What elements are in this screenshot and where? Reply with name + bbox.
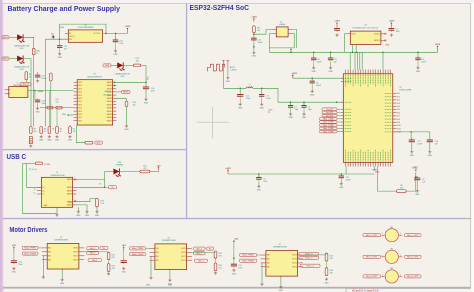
resistor R5b bbox=[396, 190, 406, 193]
wire bbox=[337, 124, 341, 126]
wire bbox=[233, 260, 235, 263]
node junction bbox=[253, 46, 255, 48]
LED D2 bbox=[17, 56, 25, 65]
svg-text:+VBAT: +VBAT bbox=[37, 90, 44, 93]
svg-text:OUT1: OUT1 bbox=[181, 260, 186, 262]
node junction bbox=[34, 90, 36, 92]
power flag small bbox=[147, 77, 149, 80]
svg-text:1: 1 bbox=[382, 274, 383, 276]
svg-text:1k: 1k bbox=[36, 53, 38, 55]
wire bbox=[42, 256, 44, 276]
wire bbox=[33, 55, 35, 108]
ground bbox=[328, 66, 333, 73]
ground bbox=[124, 125, 129, 132]
antenna ANT1 bbox=[207, 64, 225, 71]
svg-text:+3V3: +3V3 bbox=[435, 44, 441, 46]
U9 bottom pin bbox=[280, 276, 282, 278]
global label Motor_2_OUT2 bbox=[405, 255, 422, 258]
svg-text:OUTPUT: OUTPUT bbox=[93, 33, 101, 35]
M2 pin 1 bbox=[381, 256, 384, 258]
svg-text:Mot_3_OUT1: Mot_3_OUT1 bbox=[366, 275, 377, 278]
svg-text:LED: LED bbox=[121, 76, 125, 78]
ground bbox=[122, 267, 127, 274]
U1 left pins bbox=[74, 82, 83, 122]
ground bbox=[12, 267, 17, 274]
svg-text:10k: 10k bbox=[73, 131, 76, 133]
svg-text:OUT1: OUT1 bbox=[181, 252, 186, 254]
svg-text:+5V: +5V bbox=[157, 165, 161, 167]
U5 top pins bbox=[346, 70, 391, 74]
U1 right pins bbox=[107, 82, 117, 122]
Y1 pin 2 bbox=[272, 33, 276, 35]
power +3V3 rail right bbox=[435, 44, 441, 52]
wire bbox=[23, 59, 31, 127]
svg-text:GND: GND bbox=[144, 102, 149, 104]
J1 left pins bbox=[37, 187, 45, 196]
wire bbox=[61, 271, 63, 278]
node junction bbox=[352, 52, 354, 54]
svg-text:USB4110-GF-A: USB4110-GF-A bbox=[51, 174, 66, 177]
svg-text:XT25F32B-S IDT 2T25 1V8 T2: XT25F32B-S IDT 2T25 1V8 T25 bbox=[352, 28, 378, 30]
node junction bbox=[145, 82, 147, 84]
svg-text:GND: GND bbox=[302, 117, 307, 119]
wire bbox=[429, 132, 431, 139]
U8 right pins bbox=[181, 248, 192, 262]
ground bbox=[55, 135, 60, 142]
wire bbox=[23, 162, 27, 164]
power +5V USB bbox=[157, 165, 161, 171]
ground bbox=[390, 34, 393, 37]
global label Motor_2_PWM1 bbox=[320, 124, 338, 127]
ground bbox=[428, 150, 433, 157]
svg-text:Motor_PWM1: Motor_PWM1 bbox=[242, 254, 254, 257]
ground bbox=[95, 210, 100, 217]
wire bbox=[393, 131, 430, 133]
node junction bbox=[355, 52, 357, 54]
svg-text:F1 2A: F1 2A bbox=[44, 163, 50, 166]
U2 pin IN bbox=[65, 32, 68, 34]
wire bbox=[27, 162, 36, 164]
wire bbox=[337, 118, 341, 120]
global label M1 OUT1 bbox=[87, 247, 99, 250]
global label CHG_LED2 bbox=[2, 57, 9, 60]
J1 right pins bbox=[67, 179, 77, 206]
wire bbox=[261, 98, 263, 103]
capacitor C7 bbox=[389, 27, 395, 32]
capacitor C15 bbox=[237, 93, 244, 98]
Y1 pin 3 bbox=[288, 28, 292, 30]
svg-text:GND: GND bbox=[122, 272, 127, 274]
svg-text:GND: GND bbox=[288, 117, 293, 119]
wire bbox=[313, 52, 315, 57]
svg-text:GND: GND bbox=[415, 194, 420, 196]
svg-text:+3V3: +3V3 bbox=[389, 21, 395, 23]
wire bbox=[59, 49, 61, 52]
ground bbox=[302, 113, 307, 120]
wire feedback loop U2 bbox=[60, 24, 106, 39]
svg-text:Motor Drivers: Motor Drivers bbox=[10, 225, 48, 234]
svg-text:LED: LED bbox=[20, 69, 24, 71]
wire bbox=[257, 254, 261, 256]
resistor R10 bbox=[32, 48, 35, 55]
power +3V3 bottom left bbox=[225, 168, 231, 174]
global label Motor_1_PWM1 bbox=[320, 118, 338, 121]
left page margin strip bbox=[0, 0, 3, 292]
svg-text:10k: 10k bbox=[257, 30, 260, 32]
wire bbox=[77, 186, 105, 188]
node junction bbox=[114, 82, 116, 84]
wire bbox=[292, 29, 296, 48]
wire bbox=[261, 263, 263, 283]
wire bbox=[150, 171, 159, 173]
title block frame bbox=[346, 288, 471, 292]
svg-text:1k: 1k bbox=[29, 77, 31, 79]
section divider Motor Drivers top bbox=[3, 218, 471, 220]
svg-text:Battery Charge and Power Suppl: Battery Charge and Power Supply bbox=[8, 4, 121, 13]
svg-text:IO4: IO4 bbox=[397, 106, 400, 108]
svg-text:IO7: IO7 bbox=[397, 116, 400, 118]
svg-text:VBUS: VBUS bbox=[107, 98, 113, 100]
J1 no-connect crosses bbox=[74, 178, 76, 201]
ground bbox=[35, 107, 40, 114]
global label Motor_1_PWM2 bbox=[320, 121, 338, 124]
wire bbox=[270, 34, 295, 48]
U7 bottom pin bbox=[61, 269, 63, 271]
svg-text:GND: GND bbox=[124, 129, 129, 131]
M1 pin 2 bbox=[399, 234, 402, 236]
svg-text:Chg_OK: Chg_OK bbox=[327, 109, 333, 111]
ground bbox=[60, 278, 65, 285]
ground bbox=[42, 276, 45, 279]
svg-text:OUT1: OUT1 bbox=[292, 259, 297, 261]
capacitor C4 bbox=[288, 104, 293, 109]
svg-text:1: 1 bbox=[382, 233, 383, 235]
svg-text:Motor_PWM1: Motor_PWM1 bbox=[132, 247, 144, 250]
MCU U5 bbox=[343, 74, 393, 163]
wire bbox=[351, 44, 353, 52]
wire bbox=[108, 260, 110, 264]
svg-text:GND: GND bbox=[328, 71, 333, 73]
svg-text:1: 1 bbox=[382, 255, 383, 257]
svg-text:IN1: IN1 bbox=[48, 259, 51, 261]
svg-text:IN1: IN1 bbox=[156, 252, 159, 254]
svg-text:U7: U7 bbox=[60, 237, 62, 239]
svg-text:470: 470 bbox=[219, 256, 222, 258]
svg-text:DRV8837DSGR: DRV8837DSGR bbox=[162, 240, 176, 242]
resistor R3 bottom row bbox=[40, 127, 43, 134]
node junction bbox=[114, 85, 116, 87]
svg-text:2: 2 bbox=[400, 255, 401, 257]
wire bbox=[254, 29, 272, 34]
wire bbox=[290, 109, 292, 112]
node junction bbox=[290, 52, 292, 54]
ground bbox=[310, 90, 315, 97]
svg-text:D+: D+ bbox=[42, 190, 44, 192]
ground bbox=[312, 66, 317, 73]
svg-text:LED_CHG: LED_CHG bbox=[103, 94, 112, 96]
J2 pin 1 bbox=[5, 89, 9, 91]
wire bbox=[356, 52, 358, 69]
svg-text:Mot_2: Mot_2 bbox=[197, 247, 202, 250]
wire bbox=[330, 62, 332, 66]
svg-text:VBUS: VBUS bbox=[67, 187, 73, 189]
svg-text:GND: GND bbox=[385, 45, 390, 47]
node junction bbox=[233, 257, 235, 259]
wire bbox=[105, 186, 109, 188]
svg-text:+3V3: +3V3 bbox=[268, 110, 272, 112]
ground bbox=[36, 79, 39, 82]
wire bbox=[76, 125, 85, 143]
global label CHG_LED1 bbox=[2, 36, 9, 39]
U4 pin right 1 bbox=[381, 33, 385, 35]
svg-text:OUT1: OUT1 bbox=[73, 248, 78, 250]
ground bbox=[324, 278, 329, 285]
capacitor C17 bbox=[35, 74, 40, 79]
global label Motor_3_PWM1 bbox=[320, 130, 338, 133]
node junction bbox=[105, 33, 107, 35]
node junction bbox=[239, 88, 241, 90]
svg-text:GND: GND bbox=[60, 283, 65, 285]
svg-text:OUT1: OUT1 bbox=[73, 256, 78, 258]
ground bbox=[252, 51, 257, 58]
fuse F1 bbox=[35, 162, 42, 165]
page border top bbox=[3, 2, 471, 4]
global label U7 PWM1 bbox=[22, 246, 38, 249]
wire bbox=[337, 127, 341, 129]
svg-text:2: 2 bbox=[400, 274, 401, 276]
global label U9 PWM1 bbox=[240, 253, 257, 256]
node junction bbox=[258, 173, 260, 175]
svg-text:GND: GND bbox=[58, 57, 63, 59]
resistor R23 bbox=[214, 251, 217, 258]
resistor R9 bbox=[25, 72, 28, 80]
node junction bbox=[417, 52, 419, 54]
wire bbox=[345, 167, 347, 175]
wire bbox=[290, 102, 292, 105]
wire bbox=[25, 80, 27, 83]
svg-text:470: 470 bbox=[112, 268, 115, 270]
U7 left pins bbox=[42, 248, 51, 262]
wire bbox=[111, 64, 117, 66]
ground bbox=[47, 135, 52, 142]
svg-text:OUT1: OUT1 bbox=[73, 259, 78, 261]
svg-text:GND: GND bbox=[410, 155, 415, 157]
svg-text:GND_2: GND_2 bbox=[69, 36, 75, 38]
svg-text:Chg_LED2: Chg_LED2 bbox=[326, 115, 334, 117]
svg-text:IO5: IO5 bbox=[397, 109, 400, 111]
wire bbox=[253, 33, 255, 38]
svg-text:VBUS: VBUS bbox=[107, 88, 113, 90]
wire 3V3 bottom rail bbox=[228, 173, 375, 175]
svg-text:100nF: 100nF bbox=[346, 179, 352, 181]
wire bbox=[416, 181, 418, 189]
svg-text:OUT1: OUT1 bbox=[292, 267, 297, 269]
section divider USB C top bbox=[3, 149, 187, 151]
global label Motor_2_OUT1 bbox=[363, 255, 381, 258]
svg-text:Mot_2: Mot_2 bbox=[198, 259, 203, 262]
global label Motor_3_OUT2 bbox=[405, 275, 422, 278]
wire bbox=[38, 247, 42, 249]
svg-text:470: 470 bbox=[112, 257, 115, 259]
LED D10 bbox=[113, 169, 121, 178]
resistor R11 bbox=[56, 106, 62, 109]
wire bbox=[215, 258, 217, 263]
node junction bbox=[341, 173, 343, 175]
label MBUS bbox=[122, 90, 131, 93]
svg-text:D+: D+ bbox=[34, 193, 36, 195]
node junction bbox=[336, 101, 338, 103]
power +3V3 C6 bbox=[334, 21, 340, 27]
svg-text:U4: U4 bbox=[364, 25, 366, 27]
svg-text:D10: D10 bbox=[118, 162, 121, 164]
U5 bottom pins bbox=[346, 162, 391, 166]
wire bbox=[169, 272, 171, 279]
svg-text:GND: GND bbox=[39, 140, 44, 142]
svg-text:IO8: IO8 bbox=[397, 119, 400, 121]
svg-text:LED2: LED2 bbox=[3, 58, 8, 60]
svg-text:Mot_1_OUT2: Mot_1_OUT2 bbox=[407, 234, 418, 237]
svg-text:VBUS: VBUS bbox=[107, 82, 113, 84]
resistor R14 bbox=[125, 101, 128, 107]
wire bbox=[337, 121, 341, 123]
wire bbox=[337, 108, 341, 110]
svg-text:GND: GND bbox=[146, 285, 151, 287]
motor driver U9 bbox=[266, 251, 298, 277]
svg-text:VBUS: VBUS bbox=[107, 117, 113, 119]
page border right bbox=[470, 3, 472, 287]
svg-text:SO/IO1: SO/IO1 bbox=[374, 34, 380, 36]
svg-text:10k: 10k bbox=[400, 188, 403, 190]
svg-text:POWER: POWER bbox=[116, 165, 124, 167]
node junction bbox=[313, 52, 315, 54]
power +5V block1 left bbox=[12, 245, 16, 251]
global label U9 PWM2 bbox=[240, 259, 257, 262]
wire bbox=[361, 52, 363, 69]
wire bbox=[96, 207, 98, 211]
svg-text:VBUS: VBUS bbox=[67, 194, 73, 196]
svg-text:VBUS: VBUS bbox=[107, 120, 113, 122]
global label Chg_OK bbox=[322, 108, 337, 111]
capacitor C21 bbox=[57, 44, 62, 49]
wire bbox=[280, 278, 282, 285]
node junction bbox=[410, 131, 412, 133]
wire bbox=[337, 111, 341, 113]
wire bbox=[123, 64, 134, 66]
LED D3 bbox=[117, 62, 125, 71]
resistor R5 bottom row bbox=[56, 127, 59, 134]
wire bbox=[56, 207, 58, 213]
power +5V block1 right bbox=[122, 245, 126, 251]
wire bbox=[77, 199, 98, 202]
svg-text:TLV75533PDBVR: TLV75533PDBVR bbox=[78, 27, 95, 29]
wire bbox=[337, 115, 341, 117]
node junction bbox=[253, 33, 255, 35]
wire bbox=[239, 98, 241, 103]
wire bbox=[116, 91, 121, 93]
wire bbox=[313, 62, 315, 66]
U5 right pins bbox=[385, 93, 401, 133]
ground bbox=[260, 103, 265, 110]
global label M3 OUT3 bbox=[300, 264, 320, 267]
svg-text:Mot_2_OUT1: Mot_2_OUT1 bbox=[366, 256, 377, 259]
page border bottom bbox=[3, 286, 471, 289]
resistor R7 bbox=[47, 106, 53, 109]
svg-text:Mot_1_OUT1: Mot_1_OUT1 bbox=[366, 234, 377, 237]
sheet origin crosshair bbox=[197, 107, 229, 138]
resistor R16 bbox=[96, 199, 99, 207]
wire bbox=[150, 256, 152, 276]
svg-text:5.1k: 5.1k bbox=[100, 203, 103, 205]
capacitor C20 bbox=[113, 38, 119, 43]
resistor R24 bbox=[214, 263, 217, 271]
ground bbox=[168, 279, 173, 286]
global label Chg_LED1 bbox=[322, 111, 337, 114]
svg-text:VBUS: VBUS bbox=[67, 179, 73, 181]
svg-text:GND: GND bbox=[238, 107, 243, 109]
svg-text:OUT1: OUT1 bbox=[73, 252, 78, 254]
svg-text:10k: 10k bbox=[56, 102, 59, 104]
capacitor C16 bbox=[35, 98, 40, 103]
svg-text:GND: GND bbox=[47, 140, 52, 142]
global label Chg_LED2 bbox=[322, 114, 337, 117]
wire bbox=[382, 52, 384, 69]
svg-text:IO9: IO9 bbox=[397, 122, 400, 124]
svg-text:Mot_1: Mot_1 bbox=[90, 247, 95, 250]
wire bbox=[123, 251, 125, 260]
ground bbox=[257, 185, 262, 192]
svg-text:GND: GND bbox=[95, 215, 100, 217]
wire bbox=[9, 58, 17, 60]
motor driver U8 bbox=[155, 244, 187, 270]
U7 right pins bbox=[73, 248, 84, 262]
capacitor C10 bbox=[339, 174, 344, 179]
wire bbox=[311, 78, 313, 80]
wire bbox=[261, 88, 263, 94]
svg-text:VBUS: VBUS bbox=[67, 190, 73, 192]
svg-text:470: 470 bbox=[330, 273, 333, 275]
svg-text:100nF: 100nF bbox=[41, 78, 47, 80]
ground U5 pad bbox=[373, 167, 380, 174]
svg-text:IO2: IO2 bbox=[397, 100, 400, 102]
svg-text:100nF: 100nF bbox=[317, 62, 323, 64]
node junction bbox=[303, 101, 305, 103]
ground bbox=[416, 66, 421, 73]
svg-text:GND: GND bbox=[260, 107, 265, 109]
wire bbox=[141, 65, 146, 86]
svg-text:GND: GND bbox=[55, 140, 60, 142]
svg-text:VBUS: VBUS bbox=[107, 104, 113, 106]
wire bbox=[340, 174, 342, 176]
svg-text:Motor_PWM2: Motor_PWM2 bbox=[132, 253, 144, 256]
svg-text:GND: GND bbox=[257, 189, 262, 191]
wire bbox=[378, 167, 397, 192]
svg-text:D+: D+ bbox=[42, 187, 44, 189]
svg-text:Motor_PWM2: Motor_PWM2 bbox=[24, 252, 36, 255]
capacitor C17b bbox=[409, 138, 415, 143]
wire bbox=[222, 64, 224, 89]
wire bbox=[37, 72, 39, 74]
svg-text:2k: 2k bbox=[60, 131, 62, 133]
ground bbox=[85, 210, 90, 217]
svg-text:+5V: +5V bbox=[122, 245, 126, 247]
inductor L1 bbox=[246, 87, 253, 88]
svg-text:IN1: IN1 bbox=[156, 260, 159, 262]
svg-text:1: 1 bbox=[10, 90, 11, 92]
wire bbox=[330, 52, 332, 57]
svg-text:GND: GND bbox=[12, 272, 17, 274]
right page margin strip bbox=[471, 3, 474, 292]
ground bbox=[76, 210, 81, 217]
